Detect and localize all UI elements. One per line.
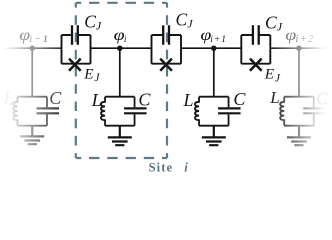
svg-text:L: L bbox=[91, 90, 102, 110]
wire left rail bbox=[2, 47, 62, 49]
svg-text:L: L bbox=[183, 90, 194, 110]
shunt loop i bbox=[105, 97, 135, 126]
svg-text:C: C bbox=[138, 89, 151, 109]
node phi_i+1 bbox=[211, 46, 216, 51]
svg-text:C: C bbox=[233, 89, 246, 109]
capacitor C i-1 plates bbox=[36, 108, 59, 113]
capacitor C i+1 plates bbox=[218, 108, 241, 113]
svg-text:i−1: i−1 bbox=[30, 35, 48, 45]
svg-text:L: L bbox=[3, 89, 14, 109]
shunt loop i+2 bbox=[284, 97, 314, 126]
wire node i-1 drop bbox=[31, 48, 33, 96]
capacitor CJ3 plates bbox=[253, 25, 259, 44]
inductor L i-1 bbox=[13, 97, 17, 126]
node phi_i+2 bbox=[296, 46, 301, 51]
svg-text:L: L bbox=[269, 88, 279, 107]
wire node i+1 drop bbox=[213, 48, 215, 96]
wire right rail bbox=[270, 47, 331, 49]
ground i+2 bbox=[287, 126, 311, 146]
wire JJ2 to node i+1 bbox=[181, 47, 241, 49]
junction JJ1 box bbox=[62, 25, 91, 70]
svg-text:i+1: i+1 bbox=[210, 35, 226, 45]
Josephson junction X2 bbox=[160, 59, 172, 71]
svg-text:C: C bbox=[316, 89, 329, 109]
capacitor CJ1 plates bbox=[72, 25, 78, 44]
svg-text:CJ: CJ bbox=[176, 10, 194, 31]
ground i bbox=[108, 126, 132, 146]
svg-text:i: i bbox=[124, 35, 127, 45]
inductor L i bbox=[101, 97, 105, 126]
shunt loop i+1 bbox=[199, 97, 229, 126]
svg-text:Site: Site bbox=[149, 161, 174, 174]
junction JJ2 box bbox=[152, 25, 182, 70]
ground i-1 bbox=[20, 126, 44, 145]
svg-text:i: i bbox=[184, 161, 188, 174]
node phi_i-1 bbox=[30, 46, 35, 51]
wire node i drop bbox=[119, 48, 121, 96]
Josephson junction X3 bbox=[250, 59, 262, 71]
Josephson junction X1 bbox=[69, 59, 81, 71]
svg-text:EJ: EJ bbox=[83, 66, 100, 85]
wire node i+2 drop bbox=[298, 48, 300, 96]
inductor L i+2 bbox=[280, 97, 284, 126]
capacitor C i plates bbox=[124, 108, 147, 113]
wire JJ1 to node i bbox=[91, 47, 152, 49]
svg-text:EJ: EJ bbox=[264, 66, 281, 85]
ground i+1 bbox=[202, 126, 226, 146]
shunt loop i-1 bbox=[17, 97, 47, 126]
svg-text:C: C bbox=[49, 88, 62, 108]
capacitor CJ2 plates bbox=[163, 25, 169, 44]
dashed site boundary box bbox=[76, 3, 167, 158]
svg-text:i+2: i+2 bbox=[296, 34, 314, 45]
inductor L i+1 bbox=[195, 97, 199, 126]
node phi_i bbox=[117, 46, 122, 51]
junction JJ3 box bbox=[241, 25, 270, 70]
capacitor C i+2 plates bbox=[303, 108, 326, 113]
svg-text:CJ: CJ bbox=[84, 12, 102, 33]
svg-text:CJ: CJ bbox=[265, 12, 283, 33]
